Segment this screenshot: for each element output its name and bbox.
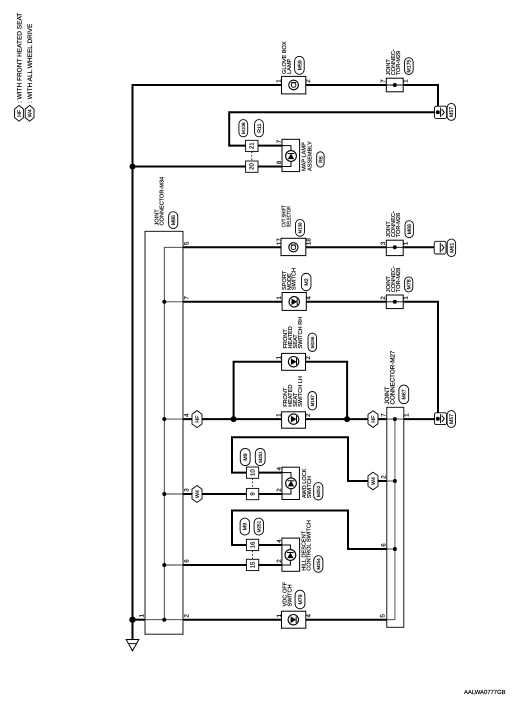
connector label M251 (AWD) <box>255 448 265 465</box>
svg-text:M59: M59 <box>297 60 303 70</box>
wire AWD lock switch pin 4 loop to M27 pin 2 <box>232 437 387 481</box>
hexagon W4 before M27 pin 2 <box>368 472 378 490</box>
wire M34 pin 3 to connector pin 9 <box>183 493 246 495</box>
wire VDC off switch to M27 pin 5 <box>306 619 387 621</box>
svg-text:16: 16 <box>250 541 257 548</box>
svg-text:SWITCH: SWITCH <box>307 476 313 498</box>
svg-text:1: 1 <box>276 296 283 300</box>
svg-text:1: 1 <box>275 79 282 83</box>
svg-text:M108: M108 <box>241 122 246 134</box>
dashed connector link M9-M251 (AWD) <box>252 478 254 488</box>
VDC off switch M79 <box>282 611 306 628</box>
svg-text:CONNECTOR-M34: CONNECTOR-M34 <box>160 177 166 226</box>
svg-text:1: 1 <box>403 79 410 83</box>
svg-text:5: 5 <box>379 614 386 618</box>
svg-text:W4: W4 <box>371 477 377 485</box>
svg-text:SWITCH: SWITCH <box>292 268 298 290</box>
svg-text:SWITCH RH: SWITCH RH <box>298 317 304 349</box>
connector label M9 (AWD) <box>240 448 250 465</box>
svg-text:7: 7 <box>380 79 387 83</box>
svg-text:10: 10 <box>250 469 257 476</box>
svg-text:ASSEMBLY: ASSEMBLY <box>308 141 314 171</box>
svg-text:: WITH FRONT HEATED SEAT: : WITH FRONT HEATED SEAT <box>16 13 23 103</box>
svg-text:18: 18 <box>305 238 312 245</box>
connector label M9 (hill descent) <box>240 518 249 535</box>
junction dot bus to M34 pin 1 <box>129 617 135 623</box>
connector label R11 <box>255 120 264 137</box>
svg-text:M254: M254 <box>316 558 321 570</box>
svg-text:HF: HF <box>17 109 23 117</box>
svg-text:M196: M196 <box>310 336 315 348</box>
connector pin 20 (M108/R11) <box>246 161 258 172</box>
svg-text:SWITCH LH: SWITCH LH <box>298 376 304 407</box>
svg-text:1: 1 <box>403 241 410 245</box>
hexagon HF on pin 4 wire <box>192 411 202 428</box>
svg-text:W4: W4 <box>28 109 34 117</box>
svg-text:M68: M68 <box>407 224 413 234</box>
svg-text:SWITCH: SWITCH <box>287 584 293 606</box>
svg-text:21: 21 <box>249 142 256 149</box>
svg-text:2: 2 <box>305 356 312 360</box>
svg-text:M251: M251 <box>256 520 261 532</box>
svg-text:M197: M197 <box>310 395 315 407</box>
map lamp assembly R6 <box>282 139 300 171</box>
svg-text:HF: HF <box>371 415 377 423</box>
svg-text:R11: R11 <box>257 124 263 133</box>
wire bus junction to connector pin 20 <box>130 164 136 170</box>
connector pin 21 (M108/R11) <box>246 140 258 151</box>
svg-text:M252: M252 <box>316 485 321 497</box>
svg-text:2: 2 <box>380 296 387 300</box>
wire pin 21 to map lamp pin 7 <box>258 145 282 147</box>
svg-text:M61: M61 <box>449 243 455 253</box>
svg-text:M57: M57 <box>449 107 455 117</box>
svg-text:1: 1 <box>404 413 411 417</box>
svg-text:M175: M175 <box>407 60 413 73</box>
connector pin 9 (M9/M251) <box>246 488 258 499</box>
svg-text:7: 7 <box>381 413 388 417</box>
svg-text:M78: M78 <box>407 279 413 289</box>
wire joint connector M28 down to page connector M57 (bottom) <box>403 302 438 413</box>
svg-text:1: 1 <box>139 614 146 618</box>
svg-text:4: 4 <box>276 539 283 543</box>
connector label M251 (hill descent) <box>254 518 263 535</box>
joint connector M34 (M86) <box>145 231 183 634</box>
svg-text:4: 4 <box>305 614 312 618</box>
joint connector M28 (M78) <box>386 295 403 309</box>
svg-text:M138: M138 <box>298 222 303 234</box>
svg-text:M79: M79 <box>298 594 304 604</box>
junction dot left heated seat loop <box>231 416 237 422</box>
connector pin 16 (M9/M251) <box>246 539 258 550</box>
wire heated seat LH to joint connector M27 pin 7 <box>306 418 387 420</box>
connector pin 10 (M9/M251) <box>246 467 258 478</box>
svg-text:CONNECTOR-M27: CONNECTOR-M27 <box>390 350 397 404</box>
svg-text:1: 1 <box>275 413 282 417</box>
svg-text:M2: M2 <box>304 278 310 285</box>
svg-text:1: 1 <box>403 296 410 300</box>
svg-text:TOR-M28: TOR-M28 <box>396 268 402 292</box>
wire joint connector M29 to page connector M57 <box>403 85 438 106</box>
page connector arrow M57 (bottom) <box>435 413 447 425</box>
connector label M108 <box>239 120 248 137</box>
joint connector M27 (M67) <box>387 407 404 627</box>
junction dot right heated seat loop <box>344 416 350 422</box>
connector pin 15 (M9/M251) <box>246 559 258 570</box>
wire hill descent pin 4 loop to M27 pin 6 <box>232 511 387 550</box>
front heated seat switch LH M197 <box>282 412 306 428</box>
page connector arrow M61 <box>434 241 446 254</box>
wire heated seat RH loop <box>234 362 282 419</box>
page connector arrow M57 (top) <box>435 106 447 118</box>
wire M34 pin 4 to heated seat switch LH <box>183 418 282 420</box>
wire M27 pin 1 to page connector M57 (bottom) <box>404 418 435 420</box>
wire M34 pin 5 to CVT shift selector <box>183 246 281 248</box>
AWD lock switch M252 <box>282 467 299 499</box>
wire bus to glove box lamp pin 1 <box>133 84 282 86</box>
svg-text:R6: R6 <box>318 156 324 163</box>
svg-text:7: 7 <box>276 139 283 143</box>
wire map lamp branch to page connector M57 <box>229 112 434 145</box>
svg-text:2: 2 <box>305 79 312 83</box>
svg-text:8: 8 <box>276 160 283 164</box>
svg-text:5: 5 <box>183 241 190 245</box>
wire M34 pin 6 to connector pin 15 <box>183 564 246 566</box>
CVT shift selector M138 <box>281 238 306 255</box>
svg-text:3: 3 <box>183 488 190 492</box>
svg-text:3: 3 <box>380 241 387 245</box>
legend hexagon HF : WITH FRONT HEATED SEAT <box>15 105 24 121</box>
hexagon W4 on pin 3 wire <box>192 486 202 503</box>
svg-text:: WITH ALL WHEEL DRIVE: : WITH ALL WHEEL DRIVE <box>27 23 34 103</box>
joint connector M26 (M68) <box>386 240 403 255</box>
svg-text:7: 7 <box>183 296 190 300</box>
svg-text:SELECTOR: SELECTOR <box>286 206 292 227</box>
ground <box>126 640 139 651</box>
glove box lamp M59 <box>282 76 306 94</box>
svg-text:2: 2 <box>276 559 283 563</box>
svg-text:15: 15 <box>250 561 257 568</box>
svg-text:1: 1 <box>276 614 283 618</box>
svg-text:4: 4 <box>306 296 313 300</box>
svg-text:1: 1 <box>275 356 282 360</box>
wire glove box lamp to joint connector M29 <box>306 84 387 86</box>
svg-text:6: 6 <box>381 543 388 547</box>
wire pin 16 to hill descent switch pin 4 <box>259 544 282 546</box>
svg-text:2: 2 <box>183 614 190 618</box>
svg-text:M57: M57 <box>449 414 455 424</box>
joint connector M29 (M175) <box>386 78 403 92</box>
dashed connector link M9-M251 (hill descent) <box>252 551 254 560</box>
svg-text:M9: M9 <box>243 523 249 530</box>
svg-text:TOR-M26: TOR-M26 <box>396 213 402 237</box>
svg-text:LAMP: LAMP <box>287 58 293 74</box>
wire pin 20 to map lamp pin 8 <box>258 166 282 168</box>
wire pin 9 to AWD switch pin 2 <box>259 493 282 495</box>
wire M34 pin 7 to sport mode switch <box>183 301 282 303</box>
dashed connector link M108-R11 <box>251 152 253 161</box>
svg-text:AALWA0777GB: AALWA0777GB <box>464 689 506 696</box>
svg-text:6: 6 <box>183 559 190 563</box>
hexagon HF before M27 <box>368 411 378 428</box>
svg-text:M86: M86 <box>171 215 177 225</box>
wire joint connector M26 to page connector M61 <box>403 246 434 248</box>
svg-text:20: 20 <box>249 163 256 170</box>
hill descent control switch M254 <box>282 538 300 571</box>
svg-text:CONTROL SWITCH: CONTROL SWITCH <box>307 520 313 571</box>
wire pin 15 to hill descent switch pin 2 <box>259 564 282 566</box>
svg-text:HF: HF <box>195 415 201 423</box>
wire sport mode switch to joint connector M28 <box>306 301 386 303</box>
svg-text:M67: M67 <box>402 389 408 399</box>
svg-text:TOR-M29: TOR-M29 <box>396 51 402 75</box>
wire pin 10 to AWD switch pin 4 <box>259 472 282 474</box>
svg-text:4: 4 <box>183 413 190 417</box>
svg-text:M251: M251 <box>258 451 263 463</box>
svg-text:2: 2 <box>381 475 388 479</box>
svg-text:W4: W4 <box>195 490 201 498</box>
wire CVT shift selector to joint connector M26 <box>306 246 387 248</box>
svg-text:2: 2 <box>276 488 283 492</box>
svg-text:M9: M9 <box>243 453 249 460</box>
svg-text:17: 17 <box>276 238 283 245</box>
front heated seat switch RH M196 <box>282 353 306 370</box>
svg-text:2: 2 <box>305 413 312 417</box>
sport mode switch M2 <box>282 293 306 311</box>
wire main left bus vertical <box>132 84 134 639</box>
legend hexagon W4 : WITH ALL WHEEL DRIVE <box>25 105 34 121</box>
svg-text:4: 4 <box>276 466 283 470</box>
wire bus through M34 to VDC off switch <box>133 619 146 621</box>
